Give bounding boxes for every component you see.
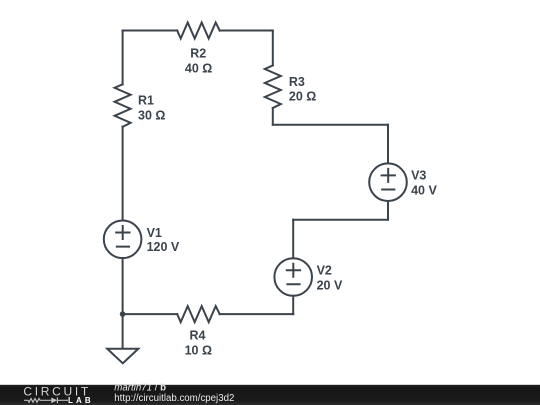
resistor R2 [177, 23, 220, 39]
svg-text:40 Ω: 40 Ω [185, 62, 212, 76]
wire top rail left segment [123, 30, 178, 32]
wire top rail right segment [220, 30, 273, 32]
wire V3 bottom lead [387, 201, 389, 220]
wire V1 to junction [122, 258, 124, 314]
wire V3 top lead [387, 125, 389, 164]
node junction dot [120, 311, 126, 317]
wire V2 bottom lead [292, 296, 294, 314]
svg-text:LAB: LAB [68, 396, 94, 405]
svg-text:V2: V2 [317, 263, 332, 277]
svg-text:40 V: 40 V [411, 184, 437, 198]
voltage source V2 [274, 258, 312, 296]
svg-text:R3: R3 [289, 75, 305, 89]
wire V2 top lead [292, 220, 294, 259]
svg-text:30 Ω: 30 Ω [138, 108, 165, 122]
svg-text:R4: R4 [190, 329, 206, 343]
svg-text:V3: V3 [411, 168, 426, 182]
voltage source V1 [104, 221, 142, 259]
wire R3 top lead [272, 31, 274, 66]
ground [107, 349, 138, 364]
svg-text:martin71 / b: martin71 / b [114, 383, 166, 394]
svg-text:20 V: 20 V [317, 279, 343, 293]
wire left rail R1 to V1 [122, 127, 124, 221]
svg-text:120 V: 120 V [147, 240, 180, 254]
svg-text:20 Ω: 20 Ω [289, 90, 316, 104]
svg-text:http://circuitlab.com/cpej3d2: http://circuitlab.com/cpej3d2 [114, 393, 234, 404]
wire junction to ground [122, 314, 124, 348]
voltage source V3 [369, 163, 407, 201]
svg-text:10 Ω: 10 Ω [185, 344, 212, 358]
logo resistor-diode glyph [24, 397, 68, 403]
wire bottom rail left segment [123, 313, 178, 315]
wire left rail upper [122, 31, 124, 85]
wire bottom rail right segment [220, 313, 294, 315]
resistor R3 [265, 66, 281, 109]
svg-text:R1: R1 [138, 93, 154, 107]
wire R3 bottom lead [272, 108, 274, 125]
wire mid horizontal V2 to V3 [293, 219, 388, 221]
svg-text:R2: R2 [190, 47, 206, 61]
resistor R4 [177, 306, 220, 322]
resistor R1 [115, 84, 131, 127]
svg-text:V1: V1 [147, 226, 162, 240]
wire upper horizontal V3 to R3 [273, 124, 388, 126]
